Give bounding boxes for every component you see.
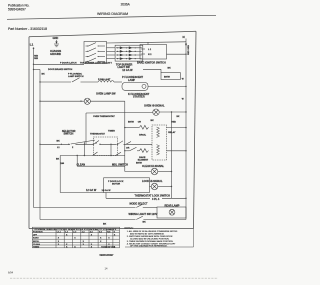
svg-text:6/94: 6/94 xyxy=(8,271,14,275)
svg-text:GROUND: GROUND xyxy=(50,53,61,56)
svg-text:5995434697: 5995434697 xyxy=(8,8,26,12)
svg-text:5995434697: 5995434697 xyxy=(100,254,115,257)
svg-text:BK: BK xyxy=(56,158,60,160)
svg-text:MOTOR: MOTOR xyxy=(112,183,121,185)
svg-text:OR: OR xyxy=(138,122,142,124)
svg-text:BK/W: BK/W xyxy=(128,122,135,124)
svg-text:LOCK HI-SIGNAL: LOCK HI-SIGNAL xyxy=(142,180,163,183)
svg-text:CLEAN: CLEAN xyxy=(77,163,86,166)
svg-text:BK: BK xyxy=(143,222,147,224)
svg-text:OR: OR xyxy=(126,147,130,149)
svg-text:W: W xyxy=(182,79,184,81)
svg-text:2036A: 2036A xyxy=(121,2,131,6)
svg-text:BK: BK xyxy=(57,141,61,143)
svg-text:WIRING DIAGRAM: WIRING DIAGRAM xyxy=(97,12,128,16)
svg-text:DOOR BRAKE SWITCH: DOOR BRAKE SWITCH xyxy=(48,68,73,71)
svg-text:BK: BK xyxy=(151,120,155,122)
svg-text:CLEAN: CLEAN xyxy=(33,243,40,246)
svg-text:12 GA W: 12 GA W xyxy=(86,189,97,192)
svg-text:BK: BK xyxy=(168,68,172,70)
svg-text:WIRING LIGHT SW 120V: WIRING LIGHT SW 120V xyxy=(129,213,158,216)
svg-text:BROIL: BROIL xyxy=(33,241,40,243)
svg-text:P DOOR LATCH: P DOOR LATCH xyxy=(60,62,77,65)
svg-text:REAR LAMP: REAR LAMP xyxy=(165,204,180,207)
svg-text:POSITION: POSITION xyxy=(33,231,43,233)
svg-text:W: W xyxy=(182,99,184,101)
svg-text:TIMER: TIMER xyxy=(108,131,115,133)
svg-text:LAMP: LAMP xyxy=(128,79,135,82)
svg-text:OVEN HI-SIGNAL: OVEN HI-SIGNAL xyxy=(144,104,165,107)
svg-text:THERMOSTAT: THERMOSTAT xyxy=(90,132,106,135)
svg-text:BK: BK xyxy=(42,74,46,76)
svg-text:R BALLAST: R BALLAST xyxy=(98,78,111,81)
svg-text:CLEAN HI-SIGNAL: CLEAN HI-SIGNAL xyxy=(142,165,165,168)
svg-text:BAKE: BAKE xyxy=(139,156,146,159)
svg-text:RED GRN: RED GRN xyxy=(188,44,190,55)
svg-text:RELAY: RELAY xyxy=(168,131,176,134)
svg-text:12 GA W: 12 GA W xyxy=(122,69,133,72)
svg-text:ELEMENT: ELEMENT xyxy=(138,160,149,162)
svg-text:BAKE IGNITOR SWITCH: BAKE IGNITOR SWITCH xyxy=(137,61,166,64)
svg-text:OVEN THERMOSTAT: OVEN THERMOSTAT xyxy=(93,115,115,118)
svg-text:TIMED: TIMED xyxy=(33,247,40,249)
svg-text:BK/W: BK/W xyxy=(136,163,143,165)
svg-text:MODE SELECT: MODE SELECT xyxy=(130,203,149,206)
svg-text:GND: GND xyxy=(53,36,59,40)
svg-text:OF THIS DIAGRAM FOR REFERENCE.: OF THIS DIAGRAM FOR REFERENCE. xyxy=(130,245,168,248)
svg-text:N: N xyxy=(183,35,185,39)
svg-text:18 GA W: 18 GA W xyxy=(102,189,112,192)
svg-text:316032118: 316032118 xyxy=(101,245,115,249)
svg-text:TOP BURNER LIGHT SW 120 V: TOP BURNER LIGHT SW 120 V xyxy=(80,63,113,65)
svg-text:RED: RED xyxy=(171,122,176,124)
svg-text:3 PL 4: 3 PL 4 xyxy=(152,198,160,201)
svg-text:LAMP SWITCH: LAMP SWITCH xyxy=(68,75,84,78)
svg-text:BAKE: BAKE xyxy=(33,237,39,240)
svg-text:NOTES:: NOTES: xyxy=(125,227,134,230)
svg-text:SWITCH: SWITCH xyxy=(64,133,74,136)
svg-text:OVEN LAMP SW: OVEN LAMP SW xyxy=(96,93,116,96)
svg-text:BK/W: BK/W xyxy=(164,76,171,78)
svg-text:BROIL: BROIL xyxy=(139,135,146,137)
svg-text:L1: L1 xyxy=(30,42,34,46)
svg-text:MDL SWITCH: MDL SWITCH xyxy=(112,163,128,166)
svg-text:Part Number - 316032118: Part Number - 316032118 xyxy=(8,27,47,31)
svg-text:BK: BK xyxy=(103,224,107,226)
svg-text:STARTER: STARTER xyxy=(133,95,145,98)
svg-text:THERMOSTAT LOCK SWITCH: THERMOSTAT LOCK SWITCH xyxy=(135,195,171,198)
